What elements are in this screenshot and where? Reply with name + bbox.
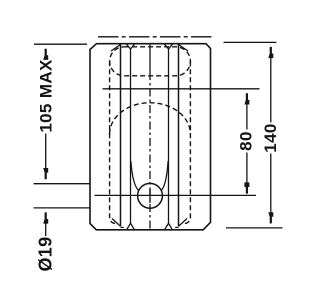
funnel curve right bbox=[161, 161, 168, 191]
arrow down at 140 bottom bbox=[268, 212, 273, 223]
hidden slot stadium (dashed) bbox=[110, 47, 191, 76]
left extension line top (105) bbox=[34, 43, 87, 45]
right extension line top (140) bbox=[224, 41, 277, 43]
arrow down at 105 bottom bbox=[43, 168, 48, 179]
arrow up at 140 top bbox=[268, 47, 273, 58]
rib line 4 with V top bbox=[165, 44, 173, 223]
horizontal feature line upper (80 ref) bbox=[103, 88, 260, 90]
svg-text:Ø19: Ø19 bbox=[35, 236, 55, 271]
center line vertical: solid top part bbox=[149, 44, 151, 72]
left extension line circle top bbox=[34, 183, 90, 185]
dim 140: line + arrows + text bbox=[270, 51, 272, 220]
center line vertical dash-dot bbox=[149, 72, 151, 230]
arrow up at 105 top bbox=[43, 49, 48, 60]
hidden dome arch (dashed) bbox=[110, 103, 191, 134]
svg-text:105 MAX: 105 MAX bbox=[37, 59, 56, 133]
horizontal center line of hole (extends right) bbox=[95, 194, 257, 196]
left extension line circle bottom bbox=[34, 207, 90, 209]
top horizontal center line (dash-dot) bbox=[98, 36, 212, 38]
dim d19: arrow + line + text bbox=[45, 216, 47, 236]
arrow down at 80 bottom bbox=[244, 182, 249, 193]
right extension line bottom (140) bbox=[226, 227, 283, 229]
svg-text:140: 140 bbox=[261, 123, 280, 152]
slot2 bottom seat bbox=[175, 226, 178, 228]
hole center vertical tick bbox=[149, 189, 151, 204]
hidden cavity right side (dashed) bbox=[184, 61, 190, 223]
rib line 5 bbox=[178, 44, 180, 226]
rib1 top chamfer bbox=[111, 45, 121, 52]
rib5 top chamfer bbox=[179, 45, 189, 52]
funnel curve left bbox=[131, 161, 139, 191]
arrow up at 80 top bbox=[244, 93, 249, 104]
rib2 bottom tent bbox=[127, 223, 134, 229]
rib line 1 bbox=[120, 44, 122, 226]
rib5 bottom foot diagonal bbox=[179, 219, 188, 227]
body outline octagon bbox=[90, 44, 211, 230]
dim 80: line + arrows + text bbox=[246, 97, 248, 188]
slot1 bottom seat bbox=[121, 226, 124, 228]
svg-text:80: 80 bbox=[236, 131, 255, 151]
dim 105 MAX: line + arrows bbox=[45, 52, 47, 177]
hole circle bbox=[138, 183, 163, 208]
rib1 bottom foot diagonal bbox=[112, 219, 121, 227]
rib4 bottom tent bbox=[165, 223, 172, 229]
rib line 2 with V top bbox=[127, 44, 135, 223]
hidden cavity left side (dashed) bbox=[110, 61, 116, 223]
arrow up at circle bottom line bbox=[43, 212, 48, 223]
